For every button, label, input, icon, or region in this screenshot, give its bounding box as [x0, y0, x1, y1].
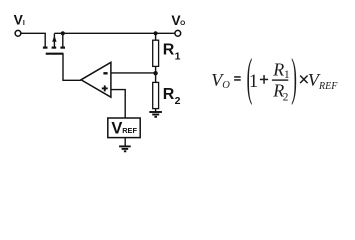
transistor Q1 source bar: [43, 46, 48, 48]
svg-text:REF: REF: [318, 81, 338, 92]
terminal VI: [15, 30, 21, 36]
label VO: [171, 13, 185, 28]
wire VI to Q1 source: [21, 33, 45, 46]
wire R1 to R2: [155, 66, 157, 82]
transistor Q1 gate line: [46, 53, 64, 55]
transistor Q1 drain bar: [60, 46, 65, 48]
op-amp U1 minus sign: [103, 72, 107, 74]
node A dot (feedback node): [153, 71, 157, 75]
transistor Q1 bulk arrowhead: [52, 36, 56, 42]
wire op-amp output to Q1 gate: [63, 54, 81, 81]
svg-text:REF: REF: [122, 126, 137, 135]
resistor R1: [153, 40, 159, 66]
ground (below VREF): [119, 146, 131, 151]
wire VREF to ground: [124, 138, 126, 147]
svg-text:1: 1: [284, 69, 290, 81]
svg-text:O: O: [222, 80, 230, 91]
svg-text:V: V: [111, 119, 122, 137]
wire rail to R1: [155, 33, 157, 40]
svg-text:1: 1: [249, 72, 258, 92]
transistor Q1 bulk bar: [52, 46, 57, 48]
svg-text:R: R: [163, 86, 175, 103]
formula equals sign: [234, 76, 241, 78]
label VI: [14, 13, 25, 28]
svg-text:O: O: [180, 20, 185, 27]
terminal VO: [175, 30, 181, 36]
wire R2 to ground: [155, 109, 157, 112]
svg-text:1: 1: [175, 50, 181, 62]
wire plus input to VREF: [111, 90, 125, 118]
wire top rail Q1 to VO: [54, 32, 174, 34]
transistor Q1 bulk arrow shaft: [53, 34, 55, 47]
svg-text:R: R: [272, 59, 284, 79]
svg-text:): ): [291, 48, 297, 106]
transistor Q1 drain leg: [62, 34, 64, 47]
ground (below R2): [149, 112, 162, 117]
label VREF: [111, 119, 137, 137]
svg-text:I: I: [23, 20, 25, 27]
formula fraction bar: [272, 79, 288, 80]
formula multiply sign: [300, 76, 308, 84]
op-amp U1 plus sign: [102, 85, 108, 91]
op-amp U1: [81, 62, 111, 97]
svg-text:2: 2: [283, 92, 289, 104]
junction dot drain: [61, 31, 65, 35]
resistor R2: [153, 82, 159, 108]
svg-text:2: 2: [175, 95, 181, 107]
formula plus sign: [260, 79, 268, 81]
label R2: [163, 86, 181, 107]
voltage reference U2 box: [108, 118, 140, 138]
label R1: [163, 42, 181, 63]
svg-text:R: R: [163, 42, 175, 59]
wire minus input to node A: [111, 72, 156, 74]
junction dot R1 tap: [154, 31, 158, 35]
formula VO = (1 + R1/R2) x VREF: [211, 48, 338, 106]
